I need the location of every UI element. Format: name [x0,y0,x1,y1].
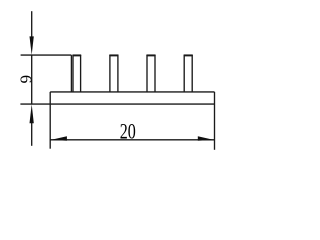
dim 6 bottom arrow shaft [31,123,33,146]
dim 6 top arrowhead [30,36,34,55]
fin 3 [147,56,155,92]
block right edge [70,55,72,92]
dim 6 top arrow shaft [31,11,33,37]
dim 20 right arrowhead [198,136,214,141]
fin 2 top cap [109,54,118,56]
fin 2 [110,56,118,92]
dim 20 left arrowhead [51,136,67,141]
profile top line with left extension [21,54,72,56]
fin 1 [73,56,81,92]
fin 4 [184,56,192,92]
base top / valley line [50,91,214,93]
dim 6 bottom arrowhead [30,104,34,123]
svg-text:6: 6 [16,75,35,84]
right edge of profile + extension down [214,92,216,150]
dim 20 dimension line [50,139,214,141]
left extension line for 20 dim [49,92,51,149]
fin 4 top cap [184,54,193,56]
fin 1 top cap [72,54,81,56]
base bottom line with left extension [20,103,214,105]
fin 3 top cap [146,54,155,56]
svg-text:20: 20 [120,120,136,144]
left edge of profile [31,55,33,104]
